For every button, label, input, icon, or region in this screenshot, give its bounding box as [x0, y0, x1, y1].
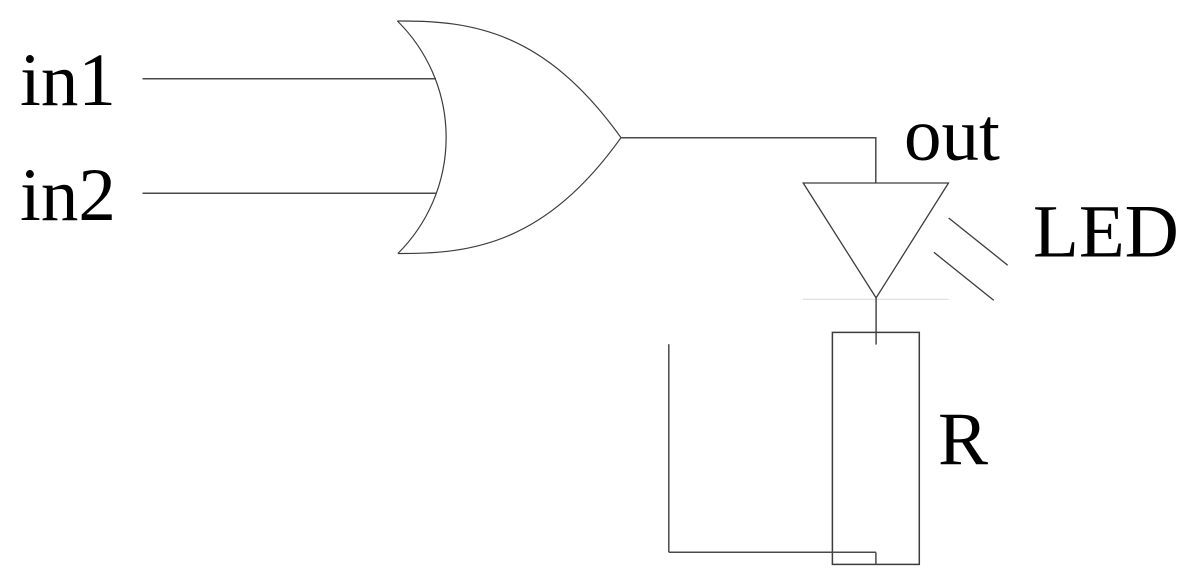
wire bottom horizontal	[669, 551, 876, 553]
svg-text:in2: in2	[20, 154, 116, 237]
wire LED to resistor	[875, 298, 877, 345]
svg-text:LED: LED	[1033, 191, 1179, 274]
wire out	[621, 138, 876, 183]
LED D1 cathode bar	[803, 298, 949, 300]
wire in2	[143, 192, 437, 194]
wire in1	[143, 78, 437, 80]
LED D1	[803, 183, 948, 298]
resistor R	[832, 332, 919, 564]
OR gate U1	[397, 21, 621, 254]
wire left vertical	[668, 344, 670, 552]
svg-text:out: out	[904, 94, 1000, 177]
LED light ray 1	[949, 218, 1008, 265]
svg-text:in1: in1	[20, 39, 116, 122]
LED light ray 2	[934, 252, 994, 300]
wire resistor bottom jog	[875, 552, 877, 564]
svg-text:R: R	[938, 398, 988, 481]
